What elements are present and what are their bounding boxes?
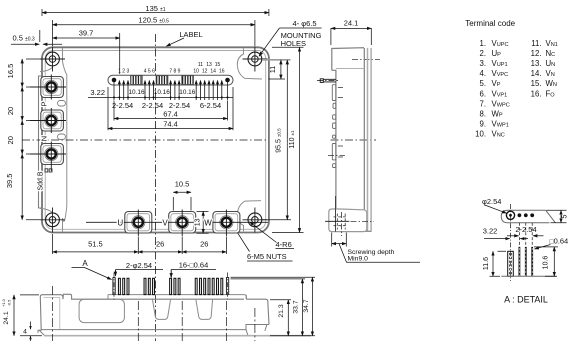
bottom row dims 51.5 / 26 / 26 (53, 234, 227, 254)
svg-text:7 8 9: 7 8 9 (169, 69, 180, 75)
svg-text:24.1: 24.1 (3, 311, 10, 324)
vertical centerline of module (dash-dot) (155, 34, 157, 341)
6-M5 NUTS leader (235, 229, 294, 261)
flange line (336, 67, 364, 69)
pockets (79, 299, 124, 322)
svg-text:φ2.54: φ2.54 (482, 197, 501, 206)
svg-text:11.6: 11.6 (483, 257, 490, 270)
svg-text:8.: 8. (479, 110, 486, 119)
terminal P block (30, 75, 66, 107)
baseplate (41, 325, 269, 331)
svg-text:13: 13 (206, 62, 212, 68)
mounting hole bottom-left (40, 208, 65, 233)
module body outline (42, 47, 269, 232)
right dims 21.3 / 33.7 / 34.7 (231, 277, 316, 336)
svg-text:9.: 9. (479, 120, 486, 129)
screw hole hidden lines (337, 214, 345, 230)
svg-text:16-□0.64: 16-□0.64 (179, 261, 209, 270)
mounting hole centerline through side view (352, 59, 380, 61)
mounting holes leader (280, 27, 322, 29)
mounting hole bottom-right (243, 208, 268, 233)
svg-text:Sdd.B: Sdd.B (38, 171, 45, 190)
svg-text:LABEL: LABEL (179, 30, 202, 39)
svg-text:16: 16 (219, 69, 225, 75)
svg-text:20: 20 (6, 136, 15, 144)
dim 11.6 (490, 251, 507, 276)
svg-text:1.: 1. (479, 39, 486, 48)
corner ear bosses and rails (40, 48, 262, 232)
left terminal housing bulge (39, 76, 43, 208)
LABEL leader (166, 38, 184, 46)
left block inner lines (44, 297, 61, 330)
svg-text:13.: 13. (531, 59, 542, 68)
guide pin holes (2-phi2.54) (112, 78, 117, 83)
svg-text:3.22: 3.22 (90, 88, 105, 97)
svg-text:11: 11 (270, 66, 277, 73)
svg-text:2-2.54: 2-2.54 (112, 101, 133, 110)
svg-text:4 5 6: 4 5 6 (144, 69, 155, 75)
svg-text:11.: 11. (531, 39, 541, 48)
svg-text:2-2.54: 2-2.54 (142, 101, 163, 110)
left dims 16.5 / 20 / 20 / 39.5 (26, 59, 40, 220)
top bar (501, 210, 555, 222)
svg-text:12.: 12. (531, 49, 542, 58)
74.4 (108, 87, 233, 130)
svg-text:110 ±1: 110 ±1 (289, 130, 296, 149)
pin dims: 3.22 (114, 82, 228, 100)
hatched blocks between pin groups (131, 76, 143, 85)
svg-text:26: 26 (200, 239, 208, 248)
svg-text:10.5: 10.5 (175, 179, 190, 188)
svg-text:6-2.54: 6-2.54 (200, 101, 221, 110)
pin strip (connector) (108, 75, 233, 85)
svg-text:16.: 16. (531, 89, 542, 98)
svg-text:U: U (117, 218, 123, 227)
module inner rim line (45, 51, 266, 230)
svg-text:Terminal code: Terminal code (465, 19, 515, 28)
svg-text:26: 26 (156, 239, 164, 248)
svg-text:39.7: 39.7 (79, 29, 94, 38)
svg-text:2-φ2.54: 2-φ2.54 (126, 261, 152, 270)
bottom terminal boss (329, 209, 367, 232)
pin numbers (118, 62, 225, 74)
phi2.54 hole (506, 211, 514, 219)
svg-text:W: W (204, 218, 212, 227)
screwing depth dim (332, 233, 347, 247)
svg-text:2.: 2. (479, 49, 486, 58)
side bumps (332, 85, 336, 168)
center tick marks (53, 286, 255, 341)
svg-text:14: 14 (210, 69, 216, 75)
mounting hole top-left (40, 47, 65, 72)
chain dimension dots (113, 96, 229, 98)
svg-text:4.: 4. (479, 69, 486, 78)
67.4 (114, 101, 228, 121)
guide pin lower (508, 251, 514, 276)
svg-text:34.7: 34.7 (303, 299, 310, 312)
svg-text:6-M5 NUTS: 6-M5 NUTS (247, 252, 287, 261)
horizontal centerline of module (dash-dot) (22, 139, 376, 141)
terminal B block (30, 142, 66, 173)
svg-text:5: 5 (562, 214, 569, 218)
mounting hole top-right (243, 47, 268, 72)
svg-text:6.: 6. (479, 89, 486, 98)
svg-text:+1.0: +1.0 (1, 298, 6, 307)
svg-text:33.7: 33.7 (293, 300, 300, 313)
baseplate double line (368, 48, 372, 231)
svg-text:13: 13 (195, 218, 202, 226)
svg-text:4-R6: 4-R6 (276, 240, 292, 249)
4-R6 leader (250, 222, 277, 243)
pins as dots (518, 213, 522, 217)
svg-text:11: 11 (198, 62, 203, 68)
svg-text:Min9.0: Min9.0 (348, 256, 369, 263)
svg-text:5.: 5. (479, 79, 486, 88)
right dims 11 / 95.5 / 110 (262, 47, 304, 232)
bottom edge (330, 230, 372, 232)
svg-text:V: V (162, 218, 168, 227)
svg-text:3.: 3. (479, 59, 486, 68)
dim 120.5 +-0.5 (53, 20, 255, 46)
svg-text:20: 20 (6, 107, 15, 115)
svg-text:□0.64: □0.64 (550, 237, 569, 246)
svg-text:74.4: 74.4 (163, 120, 178, 129)
svg-text:10.6: 10.6 (543, 256, 550, 270)
top view dim texts (5, 4, 322, 261)
dim 135 +-1 (42, 9, 269, 16)
svg-text:51.5: 51.5 (88, 239, 103, 248)
svg-text:12: 12 (202, 69, 208, 75)
svg-text:10.: 10. (475, 130, 486, 139)
svg-text:4- φ6.5: 4- φ6.5 (292, 19, 316, 28)
pin mesa strip (108, 295, 247, 300)
dim 39.7 (119, 33, 121, 74)
svg-text:39.5: 39.5 (5, 173, 14, 188)
svg-text:7.: 7. (479, 99, 486, 108)
svg-text:A : DETAIL: A : DETAIL (504, 295, 548, 305)
case outline (332, 48, 365, 232)
svg-text:10.16: 10.16 (179, 89, 195, 96)
svg-text:21.3: 21.3 (278, 304, 285, 317)
dim 0.5 (11, 43, 39, 45)
svg-text:67.4: 67.4 (163, 110, 178, 119)
control pin sticking out (323, 79, 336, 82)
svg-text:24.1: 24.1 (344, 19, 359, 28)
svg-text:10: 10 (193, 69, 199, 75)
svg-text:3.22: 3.22 (483, 227, 498, 236)
pins front: guide pins (113, 273, 229, 301)
base line (501, 275, 555, 277)
left dims 24.1 and 4 (20, 295, 42, 336)
svg-text:P: P (40, 101, 49, 106)
case outline (40, 294, 269, 330)
pins front: signal pins (118, 278, 222, 294)
svg-text:N: N (40, 136, 49, 141)
svg-text:-0.5: -0.5 (7, 300, 12, 307)
pins 1-16 as arrows (119, 84, 221, 100)
svg-text:10.16: 10.16 (154, 89, 170, 96)
svg-text:95.5 ±0.5: 95.5 ±0.5 (275, 128, 282, 153)
bottom terminals dims: 10.5 (173, 197, 191, 211)
svg-text:HOLES: HOLES (281, 39, 306, 48)
13 vertical dim (197, 211, 209, 233)
svg-text:2-2.54: 2-2.54 (169, 101, 190, 110)
signal pins lower (519, 247, 532, 276)
dashed projection lines (511, 204, 533, 251)
svg-text:15: 15 (215, 62, 221, 68)
ear-level extension line (gray) (262, 59, 291, 61)
dim 10.6 (534, 247, 558, 276)
svg-text:4: 4 (23, 329, 27, 336)
svg-text:16.5: 16.5 (6, 64, 15, 79)
svg-text:10.16: 10.16 (129, 89, 145, 96)
svg-text:14.: 14. (531, 69, 542, 78)
terminal N block (30, 108, 66, 140)
svg-text:15.: 15. (531, 79, 542, 88)
svg-text:A: A (82, 259, 88, 268)
dim 24.1 (side width) (331, 28, 371, 45)
dim 5 (547, 210, 567, 222)
